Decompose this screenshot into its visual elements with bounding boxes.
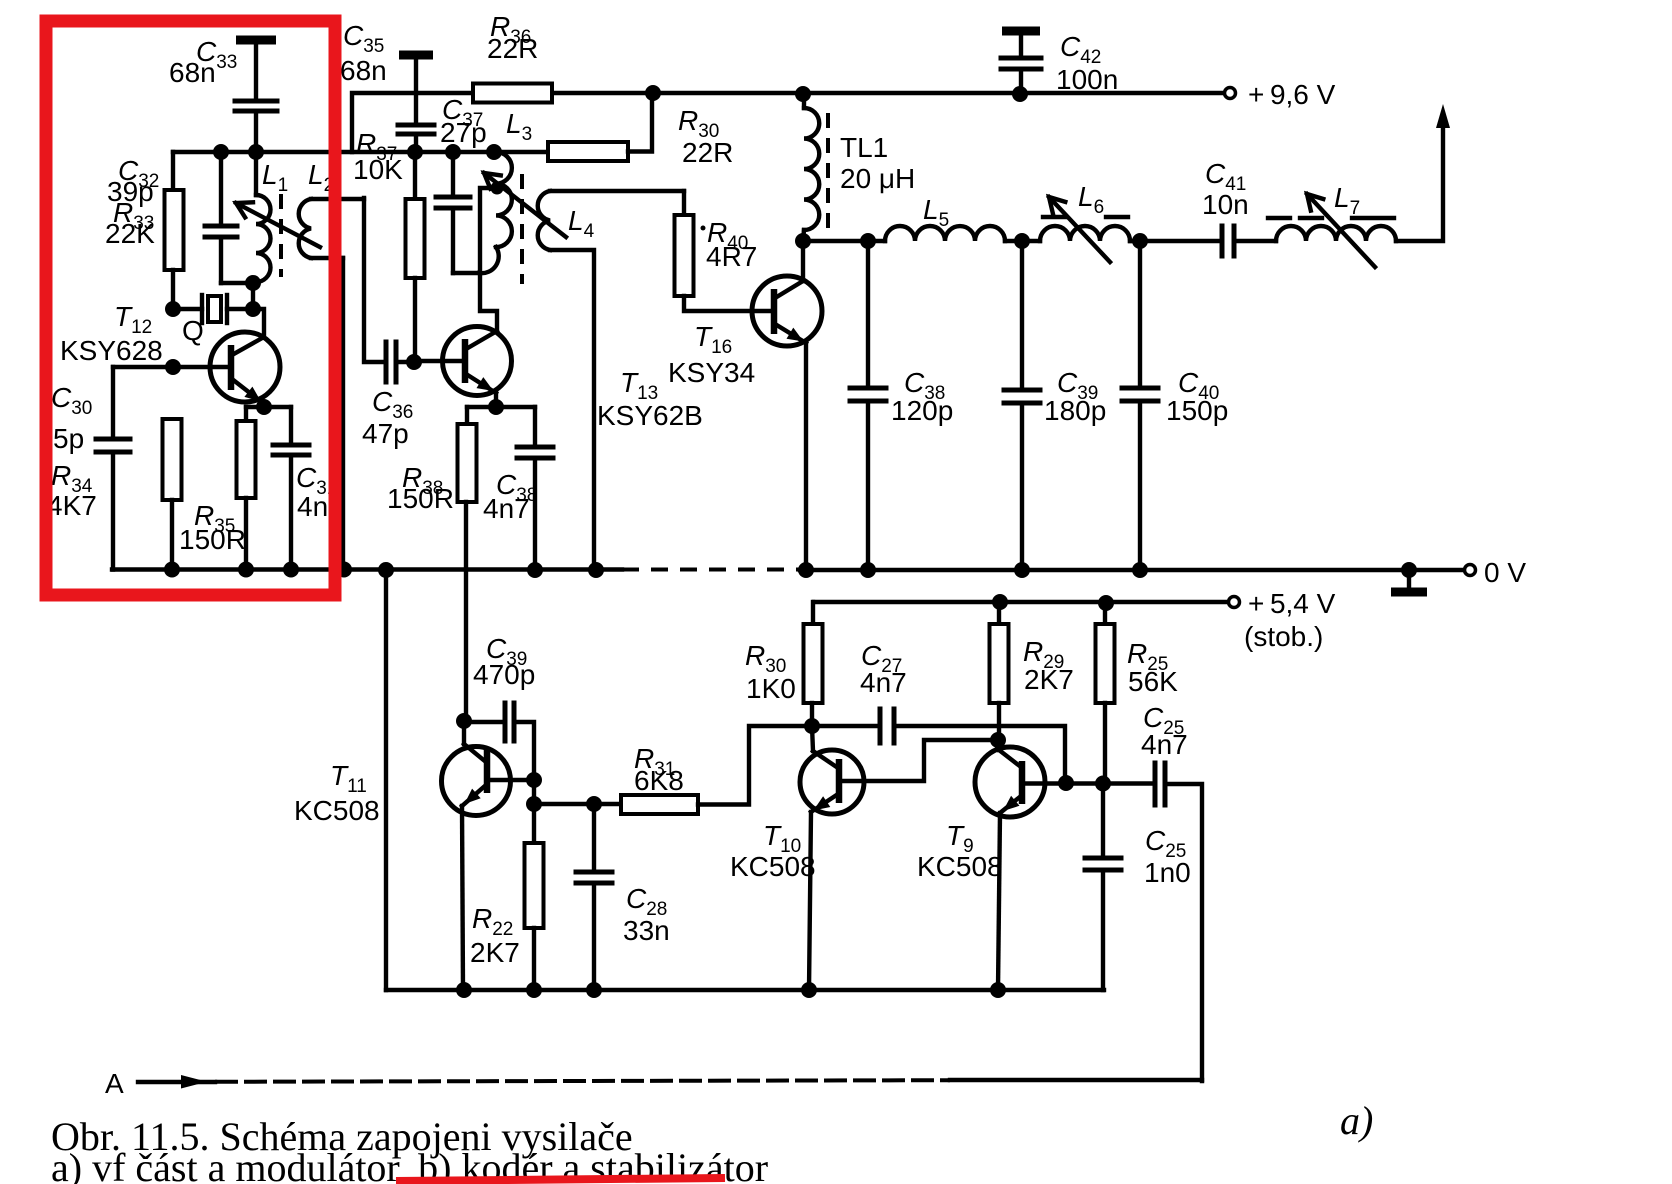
svg-text:20 μH: 20 μH <box>840 163 915 194</box>
capacitor C39 470p <box>464 720 505 724</box>
modulator ground bus <box>386 988 1104 992</box>
svg-text:KC508: KC508 <box>294 795 380 826</box>
svg-text:a): a) <box>1340 1098 1373 1143</box>
svg-text:150R: 150R <box>387 483 454 514</box>
svg-text:2K7: 2K7 <box>1024 664 1074 695</box>
choke TL1 20uH <box>795 86 811 102</box>
svg-text:22R: 22R <box>487 33 538 64</box>
svg-text:1n0: 1n0 <box>1144 857 1191 888</box>
svg-text:150p: 150p <box>1166 395 1228 426</box>
svg-text:22K: 22K <box>105 218 155 249</box>
capacitor C35 68n with ground <box>399 51 433 60</box>
capacitor C27 4n7 <box>812 724 880 728</box>
svg-text:22R: 22R <box>682 137 733 168</box>
inductor L5 <box>885 226 1005 241</box>
T10 base coupling wire to T9 collector <box>839 740 998 781</box>
inductor L1 (tank coil) <box>254 152 258 195</box>
node: oscillator supply wire <box>173 150 548 154</box>
capacitor C41 10n <box>1220 226 1225 256</box>
svg-text:(stob.): (stob.) <box>1244 621 1323 652</box>
svg-text:0 V: 0 V <box>1484 557 1526 588</box>
svg-text:KC508: KC508 <box>730 851 816 882</box>
svg-text:1K0: 1K0 <box>746 673 796 704</box>
ground (top of red box) <box>236 36 276 45</box>
svg-text:150R: 150R <box>179 524 246 555</box>
resistor R25 56K <box>1098 595 1114 611</box>
transistor T16 KSY34 <box>752 276 822 346</box>
svg-text:2K7: 2K7 <box>470 937 520 968</box>
capacitor C40 150p <box>1138 241 1142 388</box>
resistor R36 22R <box>473 84 552 103</box>
resistor R30 22R (to +9.6V) <box>548 142 628 161</box>
capacitor C30 5p <box>113 365 173 369</box>
T12 emitter node <box>256 399 272 415</box>
red underline mark <box>396 1178 725 1181</box>
svg-text:KC508: KC508 <box>917 851 1003 882</box>
capacitor C38 120p <box>866 241 870 388</box>
svg-text:470p: 470p <box>473 659 535 690</box>
capacitor C32 39p <box>219 152 223 226</box>
capacitor C36 47p <box>364 198 386 362</box>
svg-text:6K8: 6K8 <box>634 765 684 796</box>
svg-text:47p: 47p <box>362 418 409 449</box>
svg-text:4n7: 4n7 <box>1141 729 1188 760</box>
svg-text:TL1: TL1 <box>840 132 888 163</box>
svg-text:KSY628: KSY628 <box>60 335 163 366</box>
svg-text:100n: 100n <box>1056 64 1118 95</box>
capacitor C31 4n <box>289 407 293 445</box>
resistor R22 2K7 <box>525 843 544 928</box>
trimmer arrow through L1/L2 <box>236 203 320 247</box>
svg-text:68n: 68n <box>169 57 216 88</box>
svg-text:4K7: 4K7 <box>47 490 97 521</box>
resistor R30 1K0 <box>811 602 815 624</box>
capacitor C37 27p <box>451 152 455 197</box>
svg-text:+ 5,4 V: + 5,4 V <box>1248 588 1336 619</box>
svg-text:A: A <box>105 1068 124 1099</box>
svg-text:5p: 5p <box>53 423 84 454</box>
capacitor C25 1n0 <box>1101 784 1105 858</box>
resistor R33 22K <box>171 152 175 190</box>
dashed core line L3/L4 <box>520 174 524 284</box>
svg-text:56K: 56K <box>1128 666 1178 697</box>
wire: C25 to modulation input line <box>1165 784 1202 1081</box>
svg-text:+ 9,6 V: + 9,6 V <box>1248 79 1336 110</box>
trimmer arrow through L6 <box>1049 197 1110 262</box>
capacitor C42 100n with ground <box>1002 27 1040 36</box>
inductor L3 (tank, tapped) <box>496 152 512 247</box>
svg-text:27p: 27p <box>440 117 487 148</box>
svg-text:4n7: 4n7 <box>860 667 907 698</box>
dashed marks above L7 <box>1268 216 1290 220</box>
crystal Q <box>165 301 181 317</box>
trimmer arrow through L3/L4 <box>484 173 566 237</box>
transistor T9 KC508 <box>975 747 1045 817</box>
resistor R34 4K7 <box>163 419 182 500</box>
svg-text:4R7: 4R7 <box>706 241 757 272</box>
svg-text:4n: 4n <box>297 491 328 522</box>
dashed marks above L6 <box>1043 215 1065 219</box>
+9.6V supply rail <box>352 93 473 152</box>
wire: 0V rail to modulator ground bus <box>384 570 388 990</box>
transistor T11 KC508 <box>442 747 511 816</box>
inductor L7 (tunable) <box>1276 226 1396 241</box>
capacitor C25 4n7 <box>1153 763 1158 805</box>
0V rail <box>112 567 622 571</box>
transistor T12 KSY628 <box>210 332 280 402</box>
resistor R35 150R <box>244 407 248 421</box>
trimmer arrow through L7 <box>1307 194 1375 267</box>
svg-text:180p: 180p <box>1044 395 1106 426</box>
red highlight rectangle <box>46 21 335 595</box>
base node to R22 <box>532 780 536 843</box>
0 V terminal <box>1465 565 1476 576</box>
resistor R40 4R7 <box>682 191 686 215</box>
svg-text:33n: 33n <box>623 915 670 946</box>
transistor T13 KSY62B <box>443 327 512 396</box>
svg-text:120p: 120p <box>891 395 953 426</box>
+5.4 V terminal <box>1229 597 1240 608</box>
inductor L4 (link coil) <box>538 191 550 250</box>
resistor R29 2K7 <box>992 594 1008 610</box>
antenna output wire with arrow <box>1396 116 1443 241</box>
svg-text:68n: 68n <box>340 55 387 86</box>
svg-text:Q: Q <box>182 315 204 346</box>
T9 base line <box>1022 781 1155 785</box>
dashed core line L1/L2 <box>279 194 283 277</box>
ground bus right end <box>1101 870 1105 990</box>
resistor R31 6K8 <box>534 802 621 806</box>
svg-text:KSY34: KSY34 <box>668 357 755 388</box>
resistor R38 150R <box>467 405 535 409</box>
svg-text:KSY62B: KSY62B <box>597 400 703 431</box>
svg-text:4n7: 4n7 <box>483 493 530 524</box>
+5.4V stabilized rail <box>814 600 1228 604</box>
node line T16 collector / TL1 <box>795 233 811 249</box>
junction dots on 0V rail (red box) <box>164 562 180 578</box>
wire: R38 bottom crosses 0V rail to T11 collector <box>464 502 468 721</box>
tap wire L3 to T13 collector <box>480 188 497 331</box>
node A input line <box>138 1080 215 1084</box>
capacitor C38 4n7 <box>533 407 537 447</box>
capacitor C28 33n <box>592 804 596 872</box>
svg-text:10K: 10K <box>353 154 403 185</box>
wire: crystal node to T12 collector <box>253 309 264 337</box>
wire: L2 bottom to 0V rail <box>311 256 343 260</box>
+9,6 V terminal <box>1225 88 1236 99</box>
svg-text:10n: 10n <box>1202 189 1249 220</box>
ground symbol at 0V rail <box>1401 562 1417 578</box>
capacitor C33 68n <box>235 99 277 104</box>
transistor T10 KC508 <box>800 750 864 814</box>
inductor L2 (oscillator link coil) <box>299 199 311 258</box>
capacitor C39 180p <box>1020 241 1024 390</box>
resistor R37 10K <box>413 152 417 199</box>
inductor L6 (tunable) <box>1040 226 1130 241</box>
